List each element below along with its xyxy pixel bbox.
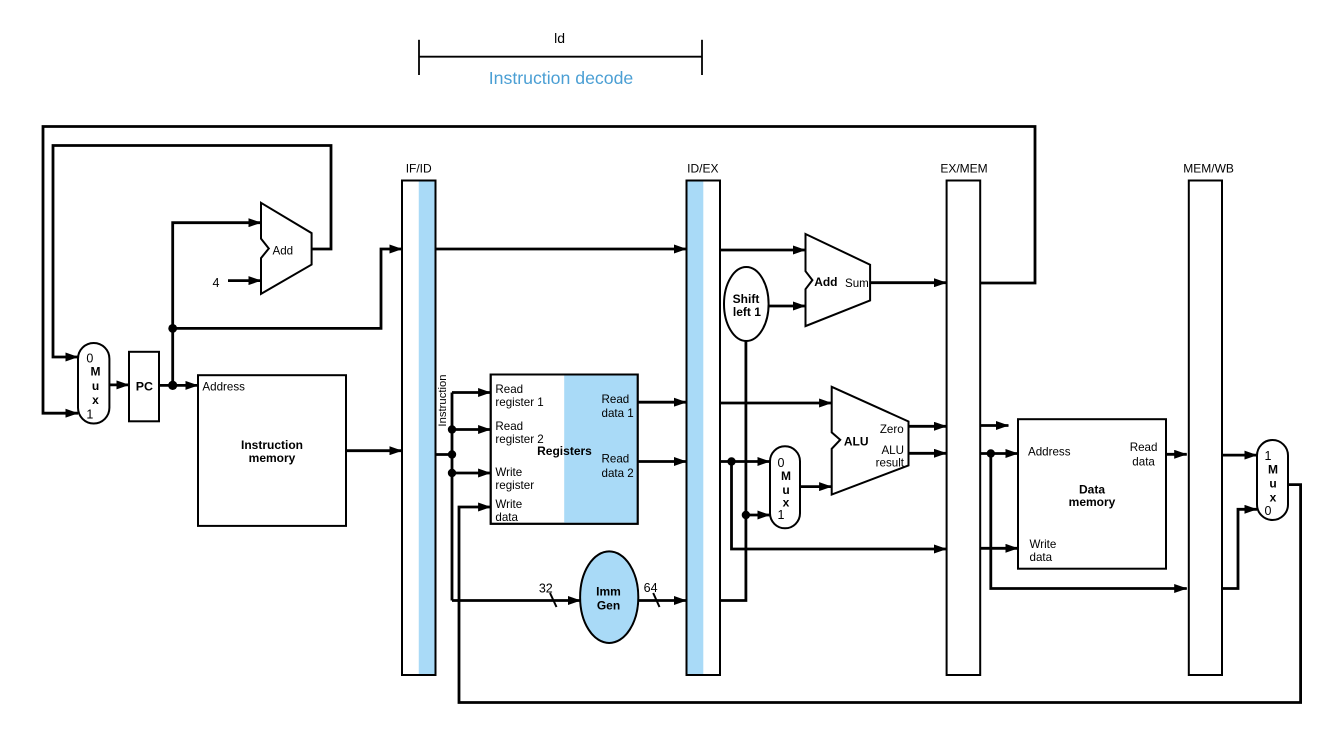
svg-text:data: data <box>1132 456 1155 469</box>
svg-text:IF/ID: IF/ID <box>406 162 432 176</box>
svg-text:1: 1 <box>86 407 93 421</box>
svg-text:Write: Write <box>495 466 522 479</box>
svg-text:32: 32 <box>539 582 553 596</box>
svg-text:Imm: Imm <box>596 585 621 599</box>
svg-text:Shift: Shift <box>733 292 760 306</box>
svg-text:Write: Write <box>1030 538 1057 551</box>
svg-text:x: x <box>1270 491 1277 505</box>
svg-text:data: data <box>495 511 518 524</box>
svg-text:M: M <box>1268 462 1278 476</box>
svg-text:PC: PC <box>136 380 153 394</box>
svg-text:1: 1 <box>1265 449 1272 463</box>
svg-text:result: result <box>876 457 905 470</box>
svg-text:64: 64 <box>644 581 658 595</box>
svg-text:memory: memory <box>1069 495 1116 509</box>
svg-text:1: 1 <box>778 508 785 522</box>
svg-text:Add: Add <box>273 245 294 258</box>
svg-text:EX/MEM: EX/MEM <box>940 162 987 176</box>
svg-text:Read: Read <box>495 420 523 433</box>
svg-text:Registers: Registers <box>537 444 592 458</box>
svg-text:0: 0 <box>86 352 93 366</box>
svg-text:Sum: Sum <box>845 277 869 290</box>
svg-text:Read: Read <box>602 453 630 466</box>
svg-text:x: x <box>92 393 99 407</box>
svg-text:Instruction: Instruction <box>437 374 449 426</box>
svg-text:Instruction decode: Instruction decode <box>489 68 634 88</box>
svg-text:Address: Address <box>1028 446 1071 459</box>
svg-text:ALU: ALU <box>844 435 869 449</box>
svg-text:Read: Read <box>1130 441 1158 454</box>
svg-text:Address: Address <box>202 380 245 393</box>
svg-text:data 1: data 1 <box>602 407 634 420</box>
svg-text:register: register <box>495 479 534 492</box>
svg-text:ALU: ALU <box>881 444 904 457</box>
svg-text:M: M <box>91 365 101 379</box>
svg-text:Instruction: Instruction <box>241 438 303 452</box>
svg-text:Zero: Zero <box>880 423 904 436</box>
svg-text:register 1: register 1 <box>495 396 543 409</box>
svg-text:4: 4 <box>213 276 220 290</box>
svg-text:data 2: data 2 <box>602 467 634 480</box>
svg-text:Read: Read <box>602 393 630 406</box>
svg-text:left 1: left 1 <box>733 305 761 319</box>
svg-text:Read: Read <box>495 383 523 396</box>
svg-text:u: u <box>1269 477 1276 491</box>
svg-text:u: u <box>92 379 99 393</box>
svg-text:Write: Write <box>495 498 522 511</box>
svg-text:MEM/WB: MEM/WB <box>1183 162 1234 176</box>
svg-text:ID/EX: ID/EX <box>687 162 718 176</box>
svg-text:0: 0 <box>1265 504 1272 518</box>
svg-text:data: data <box>1030 551 1053 564</box>
svg-text:Gen: Gen <box>597 599 620 613</box>
svg-text:M: M <box>781 469 791 483</box>
svg-text:Add: Add <box>814 275 837 289</box>
svg-text:ld: ld <box>554 30 565 46</box>
svg-text:memory: memory <box>249 451 296 465</box>
